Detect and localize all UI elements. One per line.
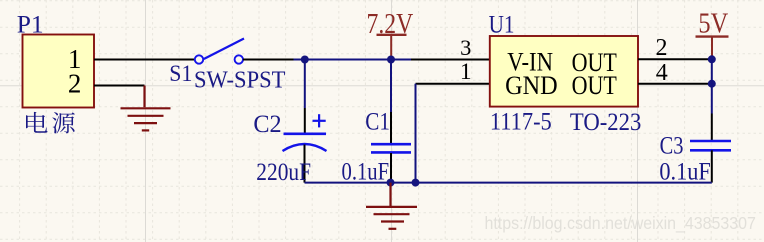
wire pin1 P1 (94, 59, 195, 61)
wire pin2 P1 (94, 85, 145, 87)
ground GND2 (366, 183, 417, 229)
capacitor C3 (659, 114, 731, 186)
svg-text:S1: S1 (169, 60, 192, 86)
svg-text:1: 1 (460, 59, 472, 85)
svg-text:2: 2 (656, 35, 668, 61)
svg-text:C2: C2 (253, 110, 281, 138)
pin 2 U1 (638, 58, 712, 60)
svg-text:U1: U1 (489, 11, 515, 39)
svg-text:SW-SPST: SW-SPST (194, 67, 285, 94)
junction rail C1 (387, 179, 395, 187)
ground GND1 (121, 86, 171, 131)
label 电源 (26, 112, 75, 134)
junction node D (708, 80, 716, 88)
power port 5V (696, 8, 729, 59)
svg-text:TO-223: TO-223 (570, 108, 641, 137)
junction rail U1 gnd (412, 179, 420, 187)
capacitor C2 (253, 108, 326, 186)
svg-text:C3: C3 (660, 130, 684, 159)
junction node A (301, 56, 309, 64)
ground rail wire (305, 182, 712, 184)
svg-text:4: 4 (656, 60, 668, 86)
svg-text:P1: P1 (17, 9, 44, 38)
junction node C (708, 55, 716, 63)
wire node A to pin3 (294, 59, 412, 61)
pin 3 U1 (411, 59, 490, 61)
svg-text:OUT: OUT (572, 71, 617, 100)
svg-text:220uF: 220uF (256, 158, 311, 186)
svg-text:1117-5: 1117-5 (490, 108, 552, 136)
wire node B down to C1 (390, 60, 392, 113)
svg-text:https://blog.csdn.net/weixin_4: https://blog.csdn.net/weixin_43853307 (485, 213, 756, 233)
pin 1 U1 (GND) (416, 83, 490, 85)
svg-text:5V: 5V (698, 8, 728, 39)
power port 7.2V (367, 8, 414, 60)
junction node B (387, 56, 395, 64)
wire pin1 down to rail (415, 84, 417, 183)
svg-text:C1: C1 (365, 108, 390, 136)
wire node A down to C2 (304, 60, 306, 109)
regulator U1 (460, 11, 668, 137)
svg-text:2: 2 (68, 69, 82, 99)
svg-text:3: 3 (460, 35, 471, 60)
wire node C to C3 (711, 59, 713, 113)
wire S1 to node A (243, 59, 294, 61)
capacitor C1 (342, 108, 412, 186)
switch S1 (169, 39, 285, 94)
svg-text:GND: GND (505, 71, 558, 100)
connector P1 (17, 9, 94, 107)
pin 4 U1 (638, 83, 712, 85)
